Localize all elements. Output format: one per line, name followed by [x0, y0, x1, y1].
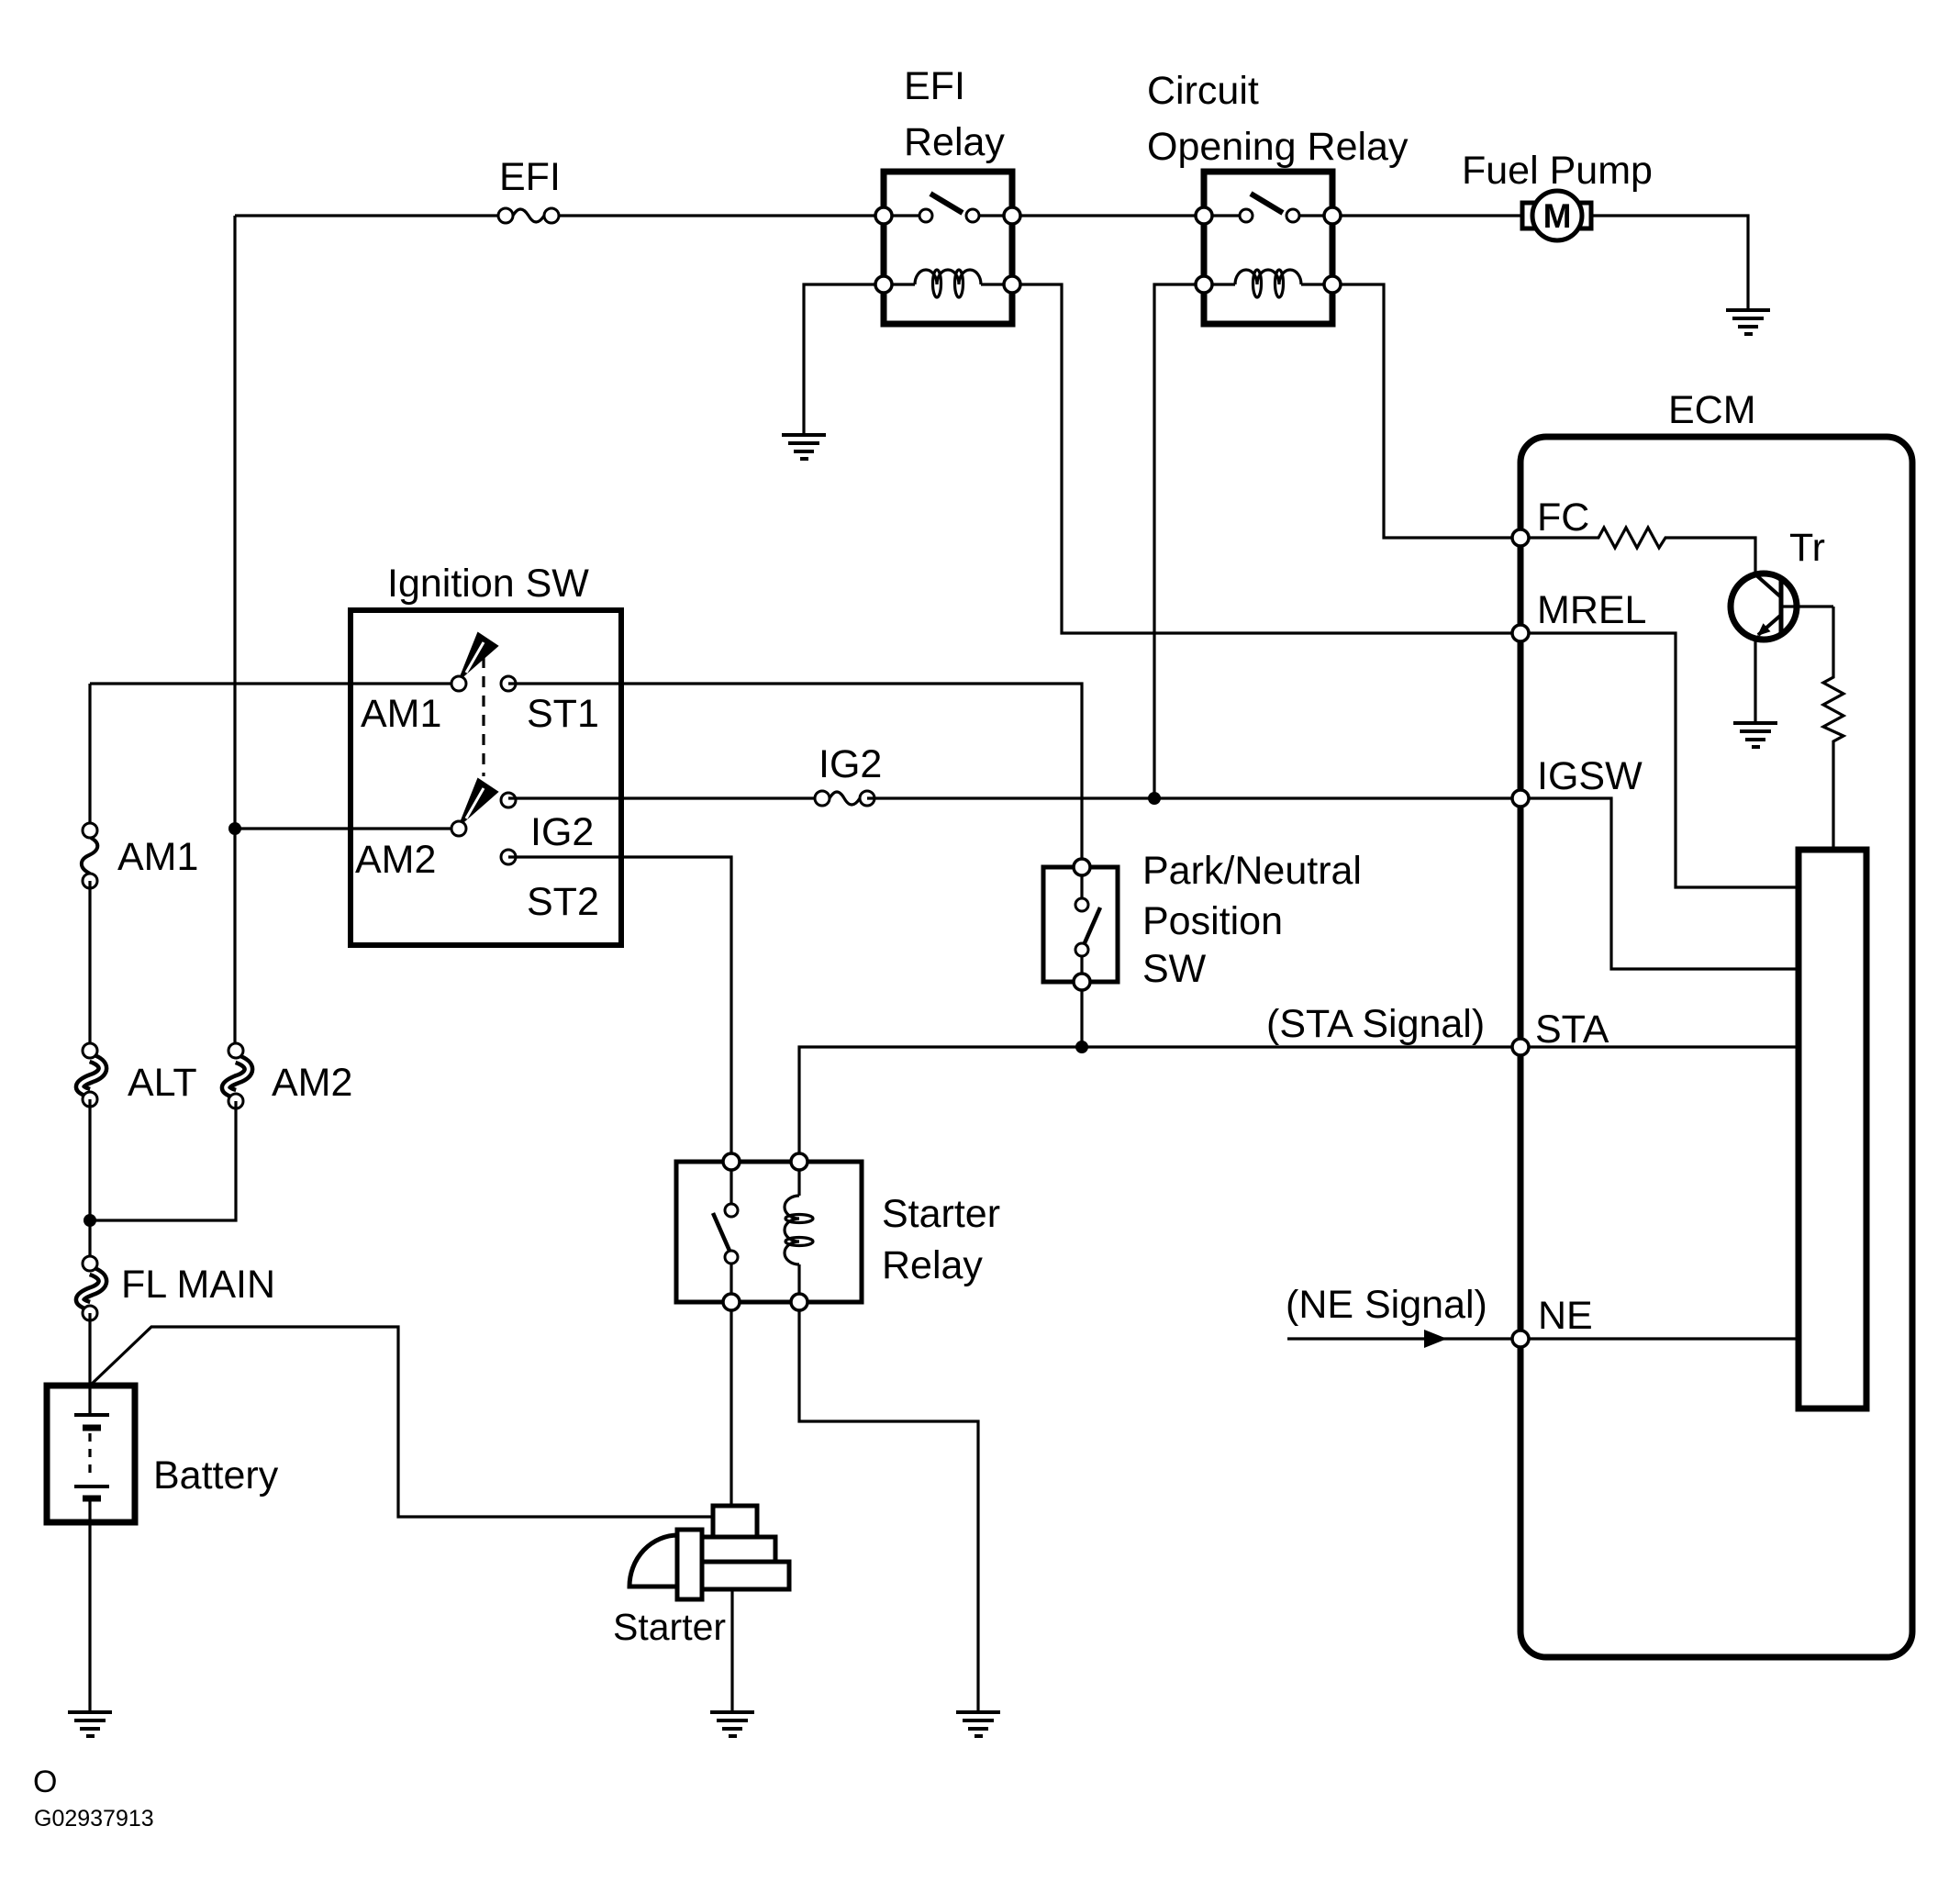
- wire AM2 feed row: [235, 827, 459, 830]
- svg-text:FL MAIN: FL MAIN: [121, 1263, 275, 1307]
- wire x=98 AM1 fuse to ALT fuse: [88, 881, 91, 1051]
- svg-text:AM1: AM1: [117, 835, 198, 879]
- svg-text:Battery: Battery: [153, 1453, 279, 1498]
- fuse AM1: [82, 823, 97, 888]
- wire ST2 to Starter Relay: [508, 857, 731, 1162]
- fuse IG2: [815, 791, 874, 806]
- EFI relay coil: [884, 270, 1012, 297]
- wire AM2 fuse bottom to left branch: [90, 1101, 236, 1220]
- svg-text:MREL: MREL: [1537, 588, 1646, 632]
- wire Tr emitter to ground: [1754, 637, 1756, 723]
- wire STA signal line: [799, 1047, 1520, 1162]
- node junction STA line: [1075, 1041, 1088, 1053]
- transistor Tr: [1731, 573, 1833, 640]
- fusible link ALT: [80, 1043, 103, 1107]
- node junction IGSW line / COR coil: [1148, 792, 1161, 805]
- switch Park/Neutral Position SW box: [1043, 867, 1118, 982]
- relay Starter Relay box: [676, 1162, 862, 1302]
- svg-text:ST2: ST2: [527, 880, 599, 924]
- ECM box: [1520, 437, 1912, 1657]
- node junction trunk/AM2 row: [228, 822, 241, 835]
- node junction left branch: [84, 1214, 96, 1227]
- battery Battery: [47, 1386, 135, 1522]
- wire Starter Relay coil to ground: [799, 1302, 978, 1712]
- svg-text:Park/Neutral: Park/Neutral: [1142, 849, 1362, 893]
- svg-text:G02937913: G02937913: [34, 1806, 154, 1832]
- wire x=98 down to AM1 fuse: [88, 684, 91, 830]
- wire EFI relay to Circuit Opening Relay: [1012, 214, 1204, 217]
- Circuit Opening Relay terminals: [1196, 207, 1212, 224]
- svg-text:SW: SW: [1142, 947, 1207, 991]
- wire IG2 row to IG2 fuse: [508, 796, 822, 799]
- wire STA pin to IC: [1520, 1045, 1799, 1048]
- svg-text:AM2: AM2: [272, 1061, 352, 1105]
- svg-text:O: O: [33, 1765, 57, 1799]
- svg-text:Position: Position: [1142, 899, 1283, 943]
- Ignition SW AM1-ST1 contacts: [451, 633, 516, 691]
- switch Ignition SW box: [351, 610, 621, 945]
- wire EFI relay coil left terminal to ground: [804, 284, 884, 435]
- wire Circuit Opening Relay to Fuel Pump: [1332, 214, 1523, 217]
- wire FL MAIN to battery: [88, 1313, 91, 1386]
- wire starter to ground: [730, 1589, 733, 1712]
- relay Circuit Opening Relay box: [1204, 172, 1332, 324]
- svg-text:IG2: IG2: [819, 742, 882, 786]
- ground starter relay coil: [956, 1712, 1000, 1736]
- battery feed wire to starter: [90, 1327, 715, 1517]
- ground EFI relay coil: [782, 435, 826, 459]
- svg-text:AM1: AM1: [361, 692, 441, 736]
- P/N SW terminals: [1074, 859, 1090, 875]
- wire battery to ground: [88, 1522, 91, 1712]
- svg-text:(NE Signal): (NE Signal): [1286, 1283, 1487, 1327]
- wire left vertical trunk x=256 from top feed down to AM2 fuse: [233, 216, 236, 1051]
- pin STA: [1512, 1039, 1529, 1055]
- wire COR coil left terminal down to IGSW line junction: [1154, 284, 1204, 798]
- wire MREL pin to IC: [1520, 633, 1799, 887]
- Ignition SW dashed link: [482, 657, 484, 776]
- fusible link FL MAIN: [80, 1256, 103, 1320]
- svg-text:ECM: ECM: [1668, 388, 1756, 432]
- P/N SW contacts: [1075, 867, 1100, 982]
- pin NE: [1512, 1331, 1529, 1347]
- Circuit Opening Relay switch contact: [1204, 194, 1332, 222]
- wire MREL from EFI relay coil to ECM: [1012, 284, 1520, 633]
- svg-text:Starter: Starter: [882, 1192, 1000, 1236]
- svg-text:IGSW: IGSW: [1537, 754, 1643, 798]
- wire ALT fuse to FL MAIN fuse: [88, 1099, 91, 1264]
- ground battery: [68, 1712, 112, 1736]
- svg-text:Relay: Relay: [882, 1243, 983, 1287]
- wire IG2 fuse to ECM IGSW pin: [867, 796, 1520, 799]
- ground fuel pump: [1726, 310, 1770, 334]
- IC bar (inside ECM): [1799, 850, 1866, 1409]
- wire battery-positive trunk B+ top feed: corner to EFI fuse: [235, 214, 498, 217]
- svg-text:AM2: AM2: [355, 838, 436, 882]
- EFI relay terminals: [875, 207, 892, 224]
- motor Fuel Pump: [1522, 191, 1591, 240]
- svg-text:M: M: [1543, 197, 1572, 235]
- wire NE pin to IC: [1520, 1337, 1799, 1340]
- svg-text:EFI: EFI: [904, 64, 965, 108]
- ground starter: [710, 1712, 754, 1736]
- Circuit Opening Relay coil: [1204, 270, 1332, 297]
- wire ST1 to Park/Neutral SW: [508, 684, 1082, 867]
- wire EFI fuse to EFI relay: [559, 214, 884, 217]
- svg-text:NE: NE: [1538, 1294, 1593, 1338]
- svg-text:Opening Relay: Opening Relay: [1147, 125, 1409, 169]
- svg-text:(STA Signal): (STA Signal): [1266, 1002, 1485, 1046]
- wire Starter Relay contact to Starter: [729, 1302, 732, 1506]
- starter Starter assembly: [629, 1506, 789, 1599]
- ground Tr emitter: [1733, 723, 1777, 747]
- resistor FC (inside ECM): [1520, 528, 1755, 573]
- wire COR coil right terminal to ECM FC pin: [1332, 284, 1520, 538]
- svg-text:Relay: Relay: [904, 120, 1005, 164]
- Ignition SW AM2-IG2 contacts: [451, 779, 516, 864]
- wire AM1 feed row: [90, 682, 459, 685]
- resistor pull-up (inside ECM): [1823, 607, 1843, 850]
- svg-text:EFI: EFI: [499, 155, 561, 199]
- Starter Relay switch contact: [713, 1162, 738, 1302]
- pin MREL: [1512, 625, 1529, 641]
- wire P/N SW to STA line: [1080, 982, 1083, 1047]
- svg-text:Fuel Pump: Fuel Pump: [1462, 149, 1653, 193]
- wire IGSW pin to IC: [1520, 798, 1799, 969]
- svg-text:IG2: IG2: [530, 810, 594, 854]
- pin IGSW: [1512, 790, 1529, 807]
- pin FC: [1512, 529, 1529, 546]
- svg-text:FC: FC: [1537, 495, 1589, 540]
- wire Fuel Pump to ground: [1591, 216, 1748, 310]
- fuse EFI: [498, 208, 559, 223]
- relay EFI relay box: [884, 172, 1012, 324]
- svg-text:ALT: ALT: [128, 1061, 197, 1105]
- EFI relay switch contact: [884, 194, 1012, 222]
- fusible link AM2: [226, 1043, 249, 1108]
- wire NE signal arrow: [1287, 1330, 1513, 1348]
- svg-text:Starter: Starter: [613, 1606, 726, 1648]
- svg-text:Tr: Tr: [1789, 526, 1825, 570]
- svg-text:Ignition SW: Ignition SW: [387, 562, 589, 606]
- svg-text:Circuit: Circuit: [1147, 69, 1259, 113]
- Starter Relay coil: [785, 1162, 813, 1302]
- svg-text:ST1: ST1: [527, 692, 599, 736]
- Starter Relay terminals: [723, 1153, 740, 1170]
- svg-text:STA: STA: [1535, 1008, 1609, 1052]
